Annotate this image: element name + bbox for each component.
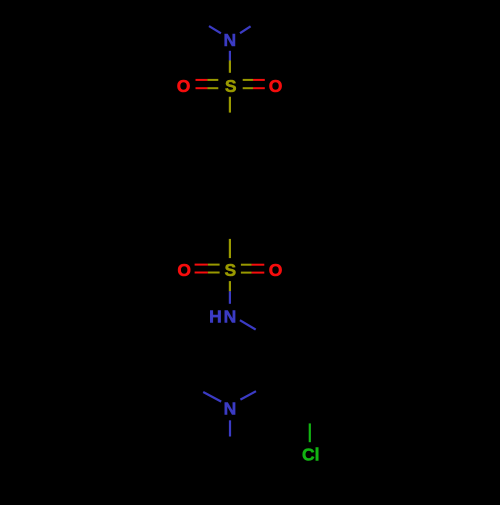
wire: N3 up-right half-bond	[240, 391, 256, 399]
svg-text:N: N	[223, 30, 236, 50]
wire: O3=S2 double bond upper line	[195, 264, 208, 266]
wire: N3 downward half-bond	[229, 420, 231, 436]
wire: N(CH3)2 right methyl half-bond	[240, 26, 251, 33]
svg-text:N: N	[224, 399, 237, 419]
wire: C-Cl half-bond (Cl half)	[309, 423, 311, 442]
wire: S2-N2 bond upper (S) half	[229, 281, 231, 291]
wire: O3=S2 double bond lower line	[195, 272, 208, 274]
svg-text:Cl: Cl	[302, 444, 320, 464]
wire: S1=O2 double bond lower line	[243, 87, 253, 89]
wire: S2=O4 double bond upper line	[241, 264, 252, 266]
wire: N(CH3)2 left methyl half-bond	[209, 26, 221, 33]
wire: S2-N2 bond lower (N) half	[229, 291, 231, 304]
wire: O1=S1 double bond upper line, O half then S half	[196, 79, 208, 81]
wire: N1-S1 bond lower (S) half	[229, 61, 231, 73]
wire: N2-C(ring) half-bond going down-right	[240, 320, 256, 329]
wire: S1-C(ring) bond visible S half stub	[229, 97, 231, 113]
svg-text:O: O	[177, 76, 191, 96]
wire: C(ring)-S2 bond visible S half stub	[229, 239, 231, 258]
wire: S1=O2 double bond upper line, S half then O half	[243, 79, 253, 81]
svg-text:O: O	[177, 260, 191, 280]
wire: O1=S1 double bond lower line	[196, 87, 208, 89]
svg-text:O: O	[269, 260, 283, 280]
svg-text:O: O	[269, 76, 283, 96]
wire: S2=O4 double bond lower line	[241, 272, 252, 274]
svg-text:N: N	[224, 307, 237, 327]
svg-text:S: S	[225, 260, 237, 280]
wire: N3 up-left half-bond	[203, 392, 221, 402]
wire: N1-S1 bond upper (N) half	[229, 51, 231, 61]
svg-text:H: H	[209, 307, 222, 327]
svg-text:S: S	[225, 76, 237, 96]
